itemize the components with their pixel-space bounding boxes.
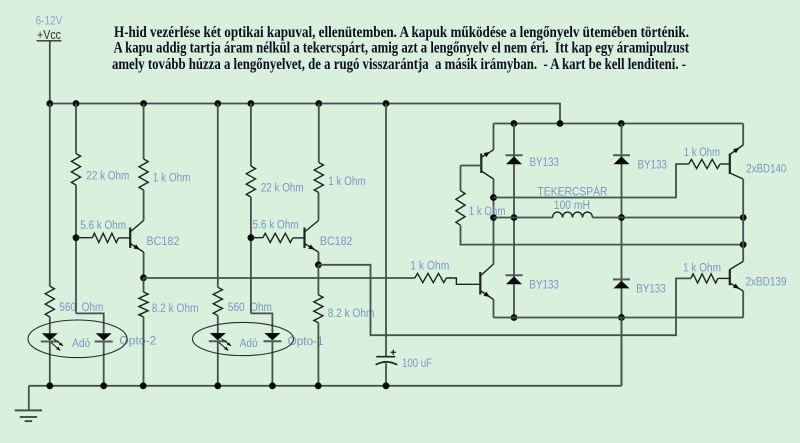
wire column F upper xyxy=(250,104,252,167)
junction bus B xyxy=(73,100,80,107)
wire column E upper xyxy=(217,104,219,288)
wire collector BC182#2 xyxy=(318,193,320,221)
junction left leg coil xyxy=(490,214,497,221)
svg-text:1 k Ohm: 1 k Ohm xyxy=(328,176,366,188)
wire column H upper xyxy=(318,104,320,163)
resistor 1 k Ohm vert xyxy=(456,191,465,226)
junction rail-Vcc xyxy=(557,120,564,127)
junction coil right leg xyxy=(740,214,747,221)
svg-text:8.2 k Ohm: 8.2 k Ohm xyxy=(152,303,199,315)
wire base drive lower-left xyxy=(144,277,415,279)
wire 8.2k bottom #1 xyxy=(143,317,145,386)
diode BY133 #3 xyxy=(506,274,523,276)
wire base step xyxy=(446,278,479,284)
wire cap column upper xyxy=(385,104,387,357)
wire column E mid xyxy=(217,316,219,334)
wire BD139 base lead xyxy=(718,277,730,279)
junction gnd E xyxy=(214,382,221,389)
junction 5.6k tap #1 xyxy=(73,234,80,241)
wire diode column 1 xyxy=(513,124,515,318)
photodiode Opto-2 xyxy=(96,333,112,340)
wire column B upper xyxy=(75,104,77,154)
resistor 1 k Ohm base-BD139 xyxy=(691,274,718,283)
wire column A mid xyxy=(49,317,51,333)
transistor BC182 #2 xyxy=(303,228,305,249)
resistor 560 Ohm #2 xyxy=(213,287,222,315)
junction diode1-rail2 xyxy=(511,314,518,321)
resistor 5.6 k Ohm #1 xyxy=(76,237,92,239)
svg-text:560 Ohm: 560 Ohm xyxy=(228,302,272,314)
junction rail-diode1 xyxy=(511,120,518,127)
wire jog to opto2 xyxy=(76,313,104,333)
ellipse opto gate 1 xyxy=(193,322,294,355)
svg-text:2xBD139: 2xBD139 xyxy=(746,276,787,288)
junction bus E xyxy=(214,100,221,107)
resistor 22 k Ohm #2 xyxy=(246,166,255,197)
wire bridge to ground xyxy=(621,318,623,386)
junction emitter #2 xyxy=(315,261,322,268)
wire base drive BD139 xyxy=(318,265,690,335)
wire 8.2k top #1 xyxy=(143,278,145,292)
wire opto2 lower xyxy=(103,341,105,385)
resistor 8.2 k Ohm #1 xyxy=(139,292,148,317)
svg-text:560 Ohm: 560 Ohm xyxy=(59,302,103,314)
diode BY133 #2 xyxy=(613,154,630,156)
transistor 2xBD140 xyxy=(729,154,731,175)
svg-text:BY133: BY133 xyxy=(529,280,559,292)
wire column D upper xyxy=(143,104,145,160)
junction emitter #1 xyxy=(140,274,147,281)
wire top Vcc bus xyxy=(50,104,560,124)
svg-text:H-hid vezérlése két optikai ka: H-hid vezérlése két optikai kapuval, ell… xyxy=(114,24,689,41)
svg-text:BY133: BY133 xyxy=(636,284,666,296)
junction gnd opto2 xyxy=(100,382,107,389)
svg-text:1 k Ohm: 1 k Ohm xyxy=(153,173,191,185)
svg-text:TEKERCSPÁR: TEKERCSPÁR xyxy=(538,186,608,199)
wire BD139 emitter lead xyxy=(742,291,744,318)
wire tekercspar xyxy=(494,164,689,198)
junction bus A xyxy=(46,100,53,107)
svg-text:22 k Ohm: 22 k Ohm xyxy=(261,183,304,195)
junction gnd A xyxy=(46,382,53,389)
resistor 1 k Ohm base-LL xyxy=(415,273,447,282)
svg-text:1 k Ohm: 1 k Ohm xyxy=(684,147,720,159)
svg-text:100 uF: 100 uF xyxy=(402,358,432,370)
wire right leg mid xyxy=(742,179,744,261)
transistor PNP upper-left xyxy=(480,154,482,174)
wire column E lower xyxy=(217,341,219,386)
wire column F mid xyxy=(250,197,252,313)
wire BD140 base lead xyxy=(720,163,730,165)
inductor 100 mH xyxy=(553,212,593,217)
wire 1k-vert top xyxy=(460,166,462,191)
resistor 560 Ohm #1 xyxy=(45,286,54,317)
diode BY133 #4 xyxy=(613,278,630,280)
junction 5.6k tap #2 xyxy=(248,234,255,241)
junction right leg 244 xyxy=(740,241,747,248)
resistor 1 k Ohm #1 xyxy=(139,159,148,190)
svg-text:amely tovább húzza a lengőnyel: amely tovább húzza a lengőnyelvet, de a … xyxy=(112,56,686,73)
junction left leg tek xyxy=(490,194,497,201)
junction rail-diode2 xyxy=(618,120,625,127)
wire PNP-L base xyxy=(461,165,482,167)
svg-text:8.2 k Ohm: 8.2 k Ohm xyxy=(328,308,375,320)
svg-text:1 k Ohm: 1 k Ohm xyxy=(410,261,449,273)
svg-text:BC182: BC182 xyxy=(320,236,353,248)
wire coil line left xyxy=(494,217,553,219)
wire emitter BC182#1 xyxy=(143,252,145,278)
capacitor 100 uF xyxy=(376,356,395,358)
wire bridge bottom rail xyxy=(494,317,744,319)
wire emitter BC182#2 xyxy=(318,252,320,265)
wire 8.2k top #2 xyxy=(317,265,319,295)
svg-text:Adó: Adó xyxy=(240,338,258,350)
svg-text:Opto-2: Opto-2 xyxy=(119,336,156,348)
wire column A lower xyxy=(49,341,51,385)
svg-text:1 k Ohm: 1 k Ohm xyxy=(683,263,721,275)
diode BY133 #1 xyxy=(506,154,523,156)
LED Adó #2 xyxy=(210,333,226,340)
junction bus F xyxy=(248,100,255,107)
junction diode1-coil xyxy=(511,214,518,221)
junction diode2-coil xyxy=(618,214,625,221)
ground xyxy=(28,386,30,411)
photodiode Opto-1 xyxy=(264,333,280,340)
junction gnd cap xyxy=(383,382,390,389)
wire column B mid xyxy=(75,185,77,313)
svg-text:22 k Ohm: 22 k Ohm xyxy=(86,171,129,183)
junction gnd 8.2k#2 xyxy=(315,382,322,389)
svg-text:BY133: BY133 xyxy=(530,157,560,169)
svg-text:Adó: Adó xyxy=(72,338,90,350)
resistor 22 k Ohm #1 xyxy=(71,154,80,186)
wire column A upper xyxy=(49,104,51,287)
wire Vcc drop xyxy=(49,42,51,104)
transistor NPN lower-left xyxy=(479,272,481,295)
ellipse opto gate 2 xyxy=(28,320,127,358)
junction gnd 8.2k#1 xyxy=(140,382,147,389)
wire diode column 2 xyxy=(621,124,623,386)
svg-text:6-12V: 6-12V xyxy=(36,16,63,28)
svg-text:A kapu addig tartja áram nélkü: A kapu addig tartja áram nélkül a tekerc… xyxy=(114,40,690,57)
wire bridge top rail xyxy=(494,123,744,125)
wire ground bus xyxy=(29,385,622,387)
wire BD140 emitter lead xyxy=(742,124,744,146)
junction bus H xyxy=(315,100,322,107)
transistor BC182 #1 xyxy=(129,228,131,249)
resistor 1 k Ohm BD140 xyxy=(689,159,720,168)
svg-text:BY133: BY133 xyxy=(638,160,668,172)
svg-text:2xBD140: 2xBD140 xyxy=(746,163,786,175)
resistor 5.6 k Ohm #2 xyxy=(251,237,263,239)
svg-text:+Vcc: +Vcc xyxy=(37,27,61,42)
wire left leg lower xyxy=(493,261,495,265)
wire coil line right xyxy=(593,217,744,219)
junction bus cap xyxy=(383,100,390,107)
wire 1k-vert to right leg xyxy=(461,225,744,244)
wire 8.2k bottom #2 xyxy=(317,323,319,386)
junction bus D xyxy=(140,100,147,107)
svg-text:100 mH: 100 mH xyxy=(554,200,590,212)
svg-text:5.6 k Ohm: 5.6 k Ohm xyxy=(80,220,126,232)
svg-text:BC182: BC182 xyxy=(146,236,179,248)
wire cap column lower xyxy=(385,363,387,386)
wire NPN-LL emitter lead xyxy=(493,300,495,318)
junction diode2-rail2 xyxy=(618,314,625,321)
svg-text:1 k Ohm: 1 k Ohm xyxy=(469,206,506,218)
resistor 8.2 k Ohm #2 xyxy=(314,295,323,323)
LED Adó #1 xyxy=(42,333,58,340)
wire collector BC182#1 xyxy=(143,190,145,221)
wire jog to opto1 xyxy=(251,313,273,333)
junction gnd opto1 xyxy=(269,382,276,389)
transistor 2xBD139 xyxy=(729,270,731,286)
wire left leg upper xyxy=(493,179,495,261)
wire opto1 lower xyxy=(271,341,273,386)
resistor 1 k Ohm #2 xyxy=(314,163,323,193)
wire PNP-L emitter lead xyxy=(493,124,495,150)
svg-text:5.6 k Ohm: 5.6 k Ohm xyxy=(253,220,299,232)
